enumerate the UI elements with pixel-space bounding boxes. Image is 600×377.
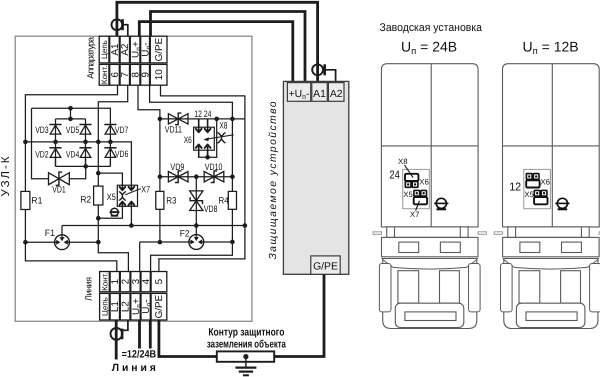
connector X6 box — [194, 127, 215, 150]
wire top distribution — [32, 108, 111, 124]
panel bottom tab — [395, 303, 464, 327]
svg-text:R2: R2 — [80, 195, 91, 205]
wire to VD1 right — [70, 166, 86, 178]
svg-text:УЗЛ-К: УЗЛ-К — [0, 156, 12, 196]
svg-text:24: 24 — [389, 170, 399, 182]
fuse F2 — [140, 241, 233, 243]
fuse F1 — [25, 241, 98, 243]
wire F1 top to ground rail — [61, 226, 63, 236]
panel terminal band — [382, 237, 479, 256]
diode VD6 — [109, 142, 111, 167]
pin squares X6 (24В) — [405, 182, 411, 188]
svg-text:Заводская установка: Заводская установка — [380, 22, 483, 34]
panel upper body — [503, 64, 600, 227]
svg-text:L1: L1 — [110, 301, 121, 312]
terminal A1 (protected device) — [312, 83, 328, 102]
diode VD7 — [109, 125, 111, 142]
jumper cap X6 position (12В) — [526, 180, 539, 187]
panel collar line — [503, 258, 599, 260]
tick on pair marker (apparatus side) — [121, 19, 124, 30]
svg-text:=12/24В: =12/24В — [122, 349, 157, 361]
svg-text:R1: R1 — [31, 196, 42, 206]
terminal block Линия — [100, 272, 167, 292]
wire G/PE to earthing bus — [159, 320, 218, 357]
svg-text:X8: X8 — [219, 121, 227, 131]
svg-text:Uп = 12В: Uп = 12В — [523, 38, 579, 57]
jumper cap X5 position (12В) — [534, 197, 547, 204]
svg-text:1: 1 — [110, 278, 121, 284]
panel upper body — [381, 64, 478, 227]
twisted pair marker circle (apparatus side) — [112, 19, 123, 30]
svg-text:X5: X5 — [524, 190, 534, 199]
svg-text:заземления объекта: заземления объекта — [207, 338, 287, 350]
resistor R4 — [228, 191, 236, 209]
svg-text:12 24: 12 24 — [194, 109, 211, 119]
wire bridge top rail — [56, 119, 86, 125]
ground symbol — [245, 357, 247, 368]
svg-text:Аппаратура: Аппаратура — [85, 37, 95, 79]
svg-text:2: 2 — [121, 279, 132, 285]
jumper glyph at X7 position — [119, 192, 125, 200]
panel horizontal divider — [503, 145, 600, 147]
panel horizontal divider — [381, 145, 478, 147]
jumper cap X7 position (24В lower) — [414, 197, 427, 204]
wire F2 top arrow — [195, 226, 197, 236]
panel terminal band — [503, 237, 599, 256]
svg-text:+Uп-: +Uп- — [289, 89, 310, 101]
svg-text:VD3: VD3 — [35, 125, 48, 135]
svg-text:X6: X6 — [419, 177, 429, 186]
svg-text:10: 10 — [154, 69, 165, 80]
svg-text:Цепь: Цепь — [100, 297, 109, 316]
wire Uп+ supply stub — [138, 320, 141, 349]
panel center divider — [430, 64, 432, 227]
svg-text:VD9: VD9 — [170, 162, 184, 172]
wire hook to protected device A2 — [325, 70, 336, 82]
svg-text:VD6: VD6 — [115, 149, 128, 159]
diode VD4 — [85, 142, 87, 167]
X5 arrows — [121, 185, 123, 190]
svg-text:9: 9 — [140, 72, 151, 78]
svg-text:G/PE: G/PE — [154, 37, 165, 61]
svg-text:VD10: VD10 — [205, 162, 223, 172]
arrow X8 into X6 — [208, 135, 234, 139]
DIN rail stubs — [373, 232, 381, 235]
junction dot bridge feed — [68, 106, 73, 111]
panel side clamp tabs — [379, 264, 391, 312]
pin squares X6 (12В upper) — [526, 174, 532, 180]
svg-text:Uп-: Uп- — [141, 299, 153, 313]
twisted pair marker circle (protected device side) — [312, 64, 323, 75]
svg-text:VD5: VD5 — [66, 125, 79, 135]
svg-text:G/PE: G/PE — [313, 262, 338, 273]
svg-text:А1: А1 — [313, 89, 326, 100]
resistor R3 — [156, 191, 164, 209]
junction dots on middle rail — [23, 140, 28, 145]
connector X5 box — [117, 185, 137, 206]
wire X6 bottom hook — [199, 119, 217, 157]
svg-text:Л и н и я: Л и н и я — [112, 362, 156, 374]
panel neck bar — [387, 227, 468, 238]
terminal +Uп- — [287, 83, 310, 102]
svg-text:VD11: VD11 — [165, 124, 182, 134]
svg-text:5: 5 — [154, 278, 165, 284]
svg-text:R4: R4 — [219, 195, 229, 205]
svg-text:Конт.: Конт. — [100, 66, 109, 85]
svg-text:G/PE: G/PE — [154, 294, 165, 318]
svg-text:R3: R3 — [166, 195, 176, 205]
protected device box Защищаемое устройство — [283, 81, 348, 274]
TVS suppressor VD1 — [49, 172, 70, 185]
wire net G/PE pin 10 down right side — [159, 85, 245, 271]
wire A2 hook to pin 7 — [123, 25, 128, 37]
svg-text:X8: X8 — [398, 157, 408, 166]
diode VD3 — [55, 125, 57, 142]
svg-text:X6: X6 — [540, 177, 550, 186]
svg-text:А2: А2 — [330, 89, 343, 100]
svg-text:Uп-: Uп- — [140, 42, 152, 56]
device enclosure УЗЛ-К — [15, 36, 252, 321]
wire middle rail of diode bridge — [25, 142, 131, 185]
svg-text:Цепь: Цепь — [100, 40, 109, 59]
panel side clamp tabs — [501, 264, 513, 312]
wire net Uп+ pin 8 down to VD11 row and R3 — [138, 85, 160, 242]
wire rail to Линия pin 3 — [139, 242, 141, 272]
svg-text:X7: X7 — [141, 184, 150, 194]
wire net A2: pin 7 down through R2 to L2 — [98, 85, 128, 271]
panel brim — [383, 260, 477, 268]
diode VD5 — [85, 125, 87, 142]
svg-text:VD1: VD1 — [52, 184, 65, 194]
pin squares X5 (24В lower) — [414, 190, 420, 196]
panel bottom slot — [526, 312, 577, 321]
panel collar line — [382, 258, 479, 260]
panel center divider — [551, 64, 553, 227]
tick on pair marker (line side) — [121, 329, 124, 340]
wire VD9 VD10 row — [160, 176, 233, 178]
terminal screw symbol (24В) — [434, 198, 448, 209]
TVS suppressor VD11 — [168, 113, 188, 125]
panel lower body — [504, 259, 598, 329]
svg-text:X5: X5 — [403, 190, 413, 199]
terminal block Аппаратура — [99, 36, 167, 63]
wire X5 lower-right arm to ground rail — [130, 206, 132, 225]
wire ground rail — [62, 225, 245, 227]
panel lower windows — [398, 271, 419, 304]
jumper area outline (24В) — [403, 169, 430, 208]
panel brim — [504, 260, 598, 268]
svg-text:Конт.: Конт. — [100, 272, 109, 291]
jumper area outline (12В) — [524, 169, 551, 208]
diode VD2 — [55, 142, 57, 167]
svg-text:Линия: Линия — [84, 277, 94, 301]
panel lower windows — [519, 271, 540, 304]
earthing bus bar — [217, 351, 274, 361]
TVS suppressor VD10 — [204, 171, 224, 183]
wire earthing bus to protected device G/PE — [274, 274, 325, 356]
svg-text:VD2: VD2 — [35, 149, 48, 159]
terminal screw symbol (12В) — [555, 198, 569, 209]
svg-text:F1: F1 — [45, 228, 55, 238]
wire L1 line stub — [115, 320, 118, 360]
wire to VD1 left — [32, 108, 49, 178]
chassis marker symbol — [110, 208, 120, 216]
jumper cap X8 position (24В upper) — [405, 174, 418, 181]
svg-text:4: 4 — [141, 278, 152, 284]
wire VD11 row — [160, 118, 245, 120]
wire bridge bottom rail — [56, 157, 111, 166]
resistor R1 — [21, 191, 30, 209]
panel bottom tab — [516, 303, 585, 327]
wire Uп- from pin 9 to protected device minus — [151, 12, 306, 82]
X6 bottom arrows — [198, 144, 200, 157]
svg-text:VD4: VD4 — [66, 149, 79, 159]
terminal A2 (protected device) — [328, 83, 344, 102]
wire A1 from pin 6 to protected device A1 — [117, 2, 318, 81]
wire net Uп- pin 9 down to R4 — [150, 85, 233, 242]
svg-text:12: 12 — [509, 182, 521, 194]
panel neck bar — [508, 227, 589, 238]
panel lower body — [383, 259, 477, 329]
panel bottom slot — [405, 312, 456, 321]
svg-text:X7: X7 — [410, 210, 420, 219]
svg-text:Контур защитного: Контур защитного — [208, 326, 284, 338]
TVS suppressor VD8 — [195, 177, 197, 226]
twisted pair marker circle (line side) — [111, 328, 123, 340]
wire Uп+ from pin 8 to protected device plus — [139, 22, 292, 82]
junction dot on bus — [243, 354, 248, 359]
svg-text:Uп = 24В: Uп = 24В — [401, 38, 457, 57]
wire stub to bridge top rail — [70, 108, 72, 119]
TVS suppressor VD9 — [168, 171, 188, 183]
wire L2 hook — [122, 320, 128, 330]
X6 top arrows — [198, 119, 200, 133]
DIN rail stubs — [494, 232, 502, 235]
svg-text:F2: F2 — [180, 228, 190, 238]
wire X5 upper-left arm from A2 net — [98, 173, 122, 185]
tick on pair marker (protected device side) — [323, 64, 326, 75]
junction dots on F1 rail — [23, 240, 28, 245]
svg-text:L2: L2 — [121, 301, 132, 312]
wire net A1: pin 6 down-left rail — [25, 85, 117, 271]
svg-text:X5: X5 — [107, 192, 116, 202]
wire Uп- supply stub — [149, 320, 152, 349]
svg-text:VD7: VD7 — [115, 125, 128, 135]
resistor R2 — [94, 186, 103, 205]
terminal G/PE (protected device) — [311, 256, 340, 274]
pin squares X5 (12В lower) — [534, 190, 540, 196]
wire jog to Линия pin 4 — [151, 242, 233, 272]
jumper symbol X8 — [218, 133, 225, 143]
svg-text:VD8: VD8 — [204, 204, 218, 214]
wire X5 lower-left arm to chassis wire — [98, 206, 122, 218]
svg-text:X6: X6 — [184, 135, 192, 145]
